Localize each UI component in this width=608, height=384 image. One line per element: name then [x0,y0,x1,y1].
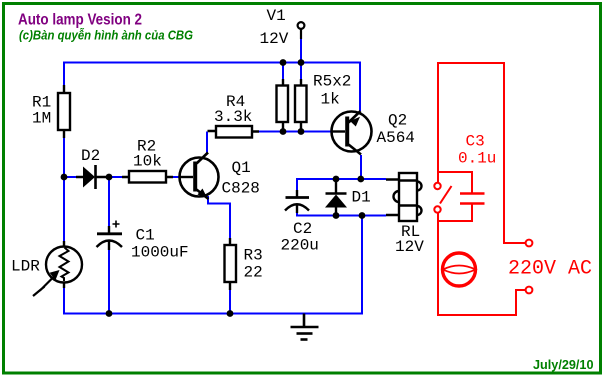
svg-text:Q2: Q2 [388,111,407,129]
svg-text:1000uF: 1000uF [131,244,189,262]
svg-text:R3: R3 [244,247,263,265]
diode D2 [76,165,109,189]
terminal bottom [526,287,533,294]
resistor R4 [208,126,260,138]
svg-text:Auto lamp Vesion 2: Auto lamp Vesion 2 [18,12,142,29]
resistor R2 [122,171,173,183]
wire V1 drop [300,39,302,63]
diode D1 [325,179,347,216]
capacitor C2 [285,190,309,213]
svg-text:1M: 1M [32,110,51,128]
red 220V circuit wires [438,63,526,315]
svg-text:D2: D2 [81,147,100,165]
svg-text:10k: 10k [133,153,162,171]
svg-text:A564: A564 [377,129,415,147]
resistor R5 left [277,79,289,132]
wire C1 top [108,177,110,226]
relay switch contacts [434,183,451,213]
LDR [33,241,82,296]
transistor Q2 [332,111,372,155]
lamp [443,253,476,286]
svg-text:C3: C3 [466,132,485,150]
ground [291,314,319,340]
svg-text:3.3k: 3.3k [214,108,252,126]
svg-text:(c)Bàn quyễn hình ành của CBG: (c)Bàn quyễn hình ành của CBG [19,28,193,43]
wire Q1 emitter to R3 [208,196,230,238]
svg-text:C2: C2 [293,220,312,238]
wire base rail to Q2 [259,131,332,133]
wire left vertical [63,138,65,241]
resistor R3 [225,238,237,290]
relay coil RL [386,173,422,221]
terminal top [526,240,533,247]
wire D2 left stub [64,176,76,178]
wire Q2 collector drop [360,155,362,179]
terminal V1 [298,22,305,39]
svg-text:July/29/10: July/29/10 [533,358,594,372]
wire top rail [64,63,360,112]
svg-text:LDR: LDR [11,258,40,276]
wire LDR to bottom rail [64,216,362,314]
svg-text:12V: 12V [260,30,289,48]
wire R3 bottom [229,290,231,314]
svg-text:V1: V1 [267,7,286,25]
transistor Q1 [180,153,219,200]
svg-text:220u: 220u [281,237,319,255]
svg-text:12V: 12V [395,238,424,256]
wire Q1 collector [206,132,208,153]
wire R2 to Q1 base [172,176,180,178]
svg-text:D1: D1 [352,188,371,206]
svg-text:R5x2: R5x2 [313,73,351,91]
svg-text:0.1u: 0.1u [458,150,496,168]
wire D2 to R2 [109,176,122,178]
capacitor C3 [460,194,485,204]
svg-text:C828: C828 [222,180,260,198]
svg-text:22: 22 [244,264,263,282]
svg-text:1k: 1k [321,91,340,109]
wire C1 bottom [108,250,110,314]
svg-text:220V AC: 220V AC [508,258,592,281]
resistor R1 [58,85,70,138]
wire relay top rail [297,179,386,190]
svg-text:Q1: Q1 [232,159,251,177]
svg-text:C1: C1 [136,226,155,244]
wire relay bottom rail [297,213,386,216]
wire R5 top stubs [283,63,301,80]
resistor R5 right [295,79,307,132]
capacitor C1 [97,221,123,251]
